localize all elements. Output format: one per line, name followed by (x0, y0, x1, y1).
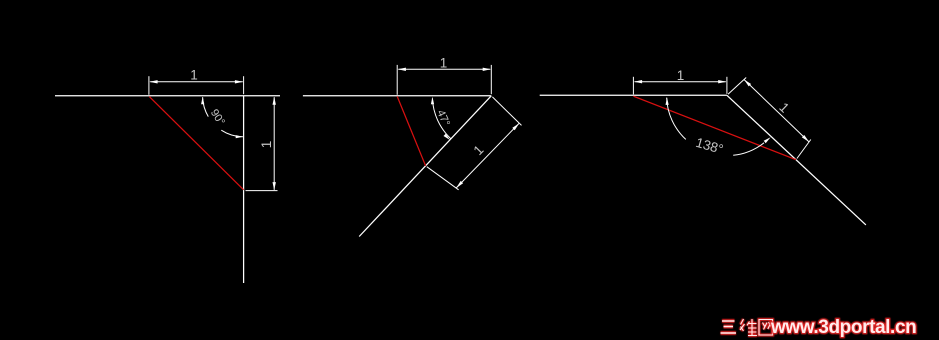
fig3 top dim arrow right (718, 80, 726, 83)
fig2 chamfer dim arrow upper (512, 123, 519, 130)
fig2 top dim arrow right (483, 68, 491, 71)
fig3 chamfer dim extension line upper (728, 78, 746, 95)
svg-text:www.3dportal.cn: www.3dportal.cn (770, 317, 916, 338)
fig2 diagonal object line 47deg (359, 96, 491, 237)
fig3 chamfer dim arrow lower (802, 135, 809, 142)
fig3 angular dim arc left segment (667, 98, 686, 140)
fig1 top dim arrow left (149, 80, 157, 83)
fig1 angular dim arrow top (201, 97, 204, 105)
svg-text:1: 1 (440, 55, 448, 70)
fig2 angular dim arrow top (431, 97, 434, 105)
fig2 horizontal object line (303, 95, 491, 97)
fig3 red chamfer line shallow (633, 96, 796, 160)
fig1 angular dim arc lower segment (221, 130, 243, 137)
svg-text:1: 1 (190, 68, 198, 83)
fig1 vertical object line (243, 96, 245, 283)
fig2 top dim arrow left (398, 68, 406, 71)
fig3 top dimension extension line right (726, 77, 728, 94)
fig1 right dimension extension line bottom (246, 190, 278, 192)
fig3 chamfer dim arrow upper (744, 80, 751, 87)
fig3 top dimension extension line left (632, 77, 634, 95)
watermark chinese char SAN red outline layer (721, 321, 737, 333)
fig3 angular dim arrow left (666, 97, 669, 105)
fig2 chamfer dimension line (456, 123, 519, 188)
fig2 angular dim arrow bottom (444, 134, 451, 140)
fig1 top dimension extension line left (148, 76, 150, 95)
fig3 angular dim arc right segment (733, 143, 764, 156)
fig1 angular dim arrow bottom (236, 135, 244, 138)
fig3 chamfer dim extension line lower (797, 140, 811, 159)
watermark chinese char WEI (740, 319, 757, 336)
fig1 horizontal object line (55, 95, 280, 97)
fig1 red chamfer line 45deg (149, 97, 243, 190)
fig2 angular dim arc (432, 98, 450, 138)
fig2 top dimension extension line left (396, 65, 398, 95)
fig3 chamfer dimension line (744, 80, 809, 142)
fig1 top dimension line (150, 81, 243, 83)
fig1 right dimension line (273, 97, 275, 190)
fig2 chamfer dim arrow lower (456, 181, 463, 188)
fig1 angular dim arc upper segment (203, 97, 209, 116)
fig3 top dimension line (635, 81, 726, 83)
fig1 right dim arrow up (273, 97, 276, 105)
fig1 top dimension extension line right (243, 76, 245, 94)
fig3 horizontal object line (540, 94, 727, 96)
fig2 red chamfer line (397, 96, 425, 165)
fig3 angular dim arrow right (764, 137, 771, 143)
fig1 right dim arrow down (273, 182, 276, 190)
fig3 diagonal object line (727, 95, 866, 225)
svg-text:1: 1 (259, 141, 274, 149)
fig2 top dimension line (398, 68, 490, 70)
fig2 chamfer dim extension line upper (492, 97, 521, 126)
fig2 top dimension extension line right (490, 65, 492, 94)
svg-text:1: 1 (677, 68, 685, 83)
fig3 top dim arrow left (634, 80, 642, 83)
watermark chinese char WANG (759, 320, 773, 336)
fig1 top dim arrow right (235, 80, 243, 83)
fig2 chamfer dim extension line lower (427, 167, 459, 190)
